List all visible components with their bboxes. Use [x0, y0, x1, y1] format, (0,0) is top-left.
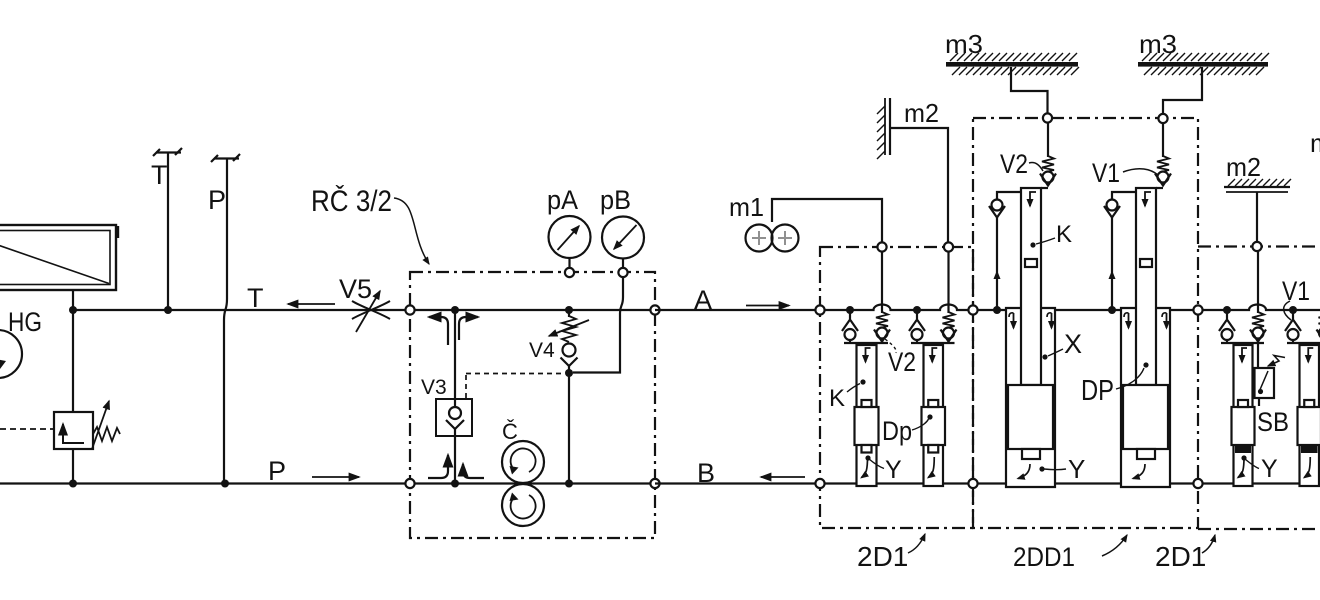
flow arrow hook up-left at P junction [428, 455, 448, 478]
wire B line through 2DD1 [973, 482, 1198, 484]
circulation pump C two circles [502, 441, 544, 526]
flow arrow into cylinder [866, 348, 871, 362]
check valve spring-loaded at x=948.5 [941, 251, 957, 343]
wire B line inside box to right [410, 482, 655, 484]
svg-text:m2: m2 [1226, 152, 1261, 182]
piston block [855, 407, 879, 445]
wire T line horizontal [73, 309, 410, 311]
barrel outer tube [1006, 308, 1055, 487]
drain arrow Y in barrel bottom [1133, 464, 1145, 479]
wire B line through right 2D1 [1198, 482, 1300, 484]
wire pB branch with crossing hop to V4 bottom node [573, 277, 623, 373]
flow arrow hook right at T junction [459, 317, 478, 340]
wire spring check to SB box [1257, 342, 1259, 369]
wire side check riser x=997 [996, 217, 998, 310]
svg-text:2D1: 2D1 [1155, 541, 1206, 572]
svg-text:pB: pB [600, 185, 631, 215]
node junction dot on A line x=1227 [1223, 306, 1231, 314]
piston lower tab [1022, 449, 1040, 459]
rod top edge extension to spring check [1156, 187, 1163, 189]
label DP 2DD1 with leader dot [1081, 362, 1149, 407]
check valve spring-loaded at x=1324.5 [1317, 312, 1320, 342]
label P on line with right flow arrow [268, 456, 359, 486]
port circle T left of box [405, 305, 414, 314]
enclosure box 2DD1 dash-dot [973, 118, 1198, 528]
svg-text:K: K [829, 385, 845, 412]
port circle at 1163,118.5 [1158, 114, 1167, 123]
node junction dot V4 bottom [565, 369, 573, 377]
svg-text:Y: Y [885, 456, 902, 484]
piston bottom band black [1301, 445, 1318, 453]
node junction dot V4 line on B [565, 480, 573, 488]
svg-text:m3: m3 [945, 29, 983, 59]
svg-text:Y: Y [1068, 454, 1085, 484]
piston top tab [928, 400, 938, 407]
svg-text:Dp: Dp [882, 416, 912, 446]
wire B line through block1 [820, 482, 973, 484]
wire V3 branch vertical [454, 310, 456, 484]
tank/cooler HG reservoir top-left [0, 225, 118, 290]
cylinder tube [857, 345, 877, 486]
wire m2 to block 2D1 second port [890, 128, 948, 243]
wire B line box to block 2D1 [655, 482, 820, 484]
wire m1 to block 2D1 port [772, 199, 882, 243]
label K block1 with leader dot [829, 379, 866, 412]
node junction dot on A line x=917 [913, 306, 921, 314]
piston lower tab [1137, 449, 1155, 459]
node junction dot T inside box [451, 306, 459, 314]
svg-text:pA: pA [547, 185, 578, 215]
pilot dashed line V3 to V4 [466, 374, 565, 399]
svg-text:A: A [694, 285, 712, 315]
port circle at 948.5,247 [944, 242, 953, 251]
gauge pair m1 [746, 225, 799, 252]
check valve spring-loaded at x=1258 [1250, 250, 1266, 342]
svg-text:V3: V3 [421, 376, 447, 399]
svg-text:SB: SB [1257, 407, 1289, 437]
svg-text:RČ 3/2: RČ 3/2 [311, 184, 392, 218]
label Y right block with leader dot [1241, 455, 1278, 483]
piston block [922, 407, 946, 445]
wire m3 second to 2DD1 right port [1163, 67, 1202, 115]
check valve side at x=1112 [1104, 192, 1136, 218]
svg-text:T: T [151, 160, 168, 190]
enclosure box RC 3/2 dash-dot [410, 272, 655, 538]
gauge pA [549, 216, 591, 272]
label K 2DD1 with leader dot [1030, 221, 1072, 248]
flow arrow hook left at T junction [429, 317, 448, 345]
label B with left flow arrow [697, 458, 805, 488]
node junction dot on A line x=1293 [1289, 306, 1297, 314]
svg-text:V4: V4 [529, 339, 555, 362]
cylinder tube [1300, 345, 1320, 486]
cylinder tube [1234, 345, 1253, 486]
pressure switch SB [1255, 368, 1275, 406]
label T on line with left flow arrow [247, 283, 335, 313]
label 2D1 right with leader arrow [1155, 535, 1215, 572]
port circle at 1257,246.5 [1252, 242, 1261, 251]
node junction dot P stub [221, 480, 229, 488]
relief valve V4 spring and ball [549, 310, 589, 373]
cylinder tube [924, 345, 944, 486]
piston top tab [862, 400, 872, 407]
manifold bracket to cylinder [911, 342, 955, 344]
svg-text:V1: V1 [1282, 276, 1310, 306]
rod stage tube [1021, 188, 1041, 385]
label RC 3/2 with leader arrow [311, 184, 429, 264]
svg-text:2D1: 2D1 [857, 541, 908, 572]
flow arrow into cylinder [1242, 348, 1247, 362]
svg-text:Č: Č [502, 419, 518, 444]
svg-text:m2: m2 [1310, 128, 1320, 158]
rod piston tab [1140, 259, 1152, 267]
svg-text:X: X [1064, 329, 1082, 359]
svg-text:Y: Y [1261, 455, 1278, 483]
svg-text:K: K [1056, 221, 1072, 248]
drain arrow Y in barrel bottom [1018, 464, 1030, 479]
support m3 hatched bar [1138, 53, 1269, 75]
wire A line inside and out to blocks [410, 309, 655, 311]
label 2DD1 with leader arrow [1013, 535, 1127, 572]
enclosure box 2D1 right dash-dot [1198, 247, 1320, 530]
flow arrow hook up-right at P junction [463, 464, 484, 478]
port circle at 973,310 [968, 305, 977, 314]
wire A line box to block 2D1 [655, 309, 820, 311]
check valve V3 in square [436, 399, 472, 436]
piston bottom band black [1235, 445, 1251, 453]
flow arrow into cylinder [932, 348, 937, 362]
label V2 block1 dashed leader [885, 339, 916, 377]
wire cooler to T line [72, 290, 74, 310]
enclosure box 2D1 first dash-dot [820, 247, 973, 528]
node junction dot V4 top on A line [565, 306, 573, 314]
flow arrow in rod [1030, 192, 1036, 206]
pump HG circle [0, 330, 22, 378]
rod stage tube [1136, 188, 1156, 385]
telescopic piston block [1123, 385, 1168, 449]
wire vertical pump branch to P line [72, 310, 74, 483]
label Y 2DD1 with leader dot [1039, 454, 1085, 484]
node junction dot P inside box [451, 480, 459, 488]
svg-text:V2: V2 [888, 347, 916, 377]
piston bottom tab [928, 445, 938, 453]
port circle at 882,247 [877, 242, 886, 251]
piston bottom tab [862, 445, 872, 453]
drain arrow Y in cylinder bottom [1238, 457, 1244, 478]
telescopic piston block [1008, 385, 1053, 449]
label Dp block1 with leader dot [882, 414, 933, 446]
check valve plain at x=917 [909, 310, 925, 343]
port circle at 820,310 [815, 305, 824, 314]
port circle at 1198,310 [1193, 305, 1202, 314]
svg-text:P: P [268, 456, 286, 486]
node junction dot left check on A [993, 306, 1001, 314]
port circle pB on box top [618, 268, 627, 277]
annulus flow arrow left [1009, 313, 1014, 328]
check valve side at x=997 [989, 192, 1021, 218]
label Y block1 with leader dot [865, 455, 902, 484]
node junction dot cooler/T [69, 306, 77, 314]
annulus flow arrow right [1047, 313, 1052, 328]
svg-text:m3: m3 [1139, 29, 1177, 59]
barrel outer tube [1121, 308, 1170, 487]
port circle pA on box top [565, 268, 574, 277]
node junction dot T stub [164, 306, 172, 314]
check valve spring-loaded at x=882 [874, 251, 890, 343]
port circle at 1047.5,118 [1043, 113, 1052, 122]
piston block [1298, 407, 1320, 445]
port circle A right of box [650, 305, 659, 314]
label 2D1 first with leader arrow [857, 534, 925, 572]
manifold bracket to cylinder [844, 342, 888, 344]
annulus flow arrow right [1162, 313, 1167, 328]
wire m2 second down to right 2D1 port [1256, 192, 1258, 242]
check valve spring-loaded V1 at x=1163 [1155, 122, 1171, 186]
check valve plain at x=1227 [1219, 310, 1235, 343]
label V1 right block with leader [1282, 276, 1310, 320]
gauge pB [602, 217, 644, 273]
flow arrow into cylinder [1308, 348, 1313, 362]
port T stub vertical with termination [153, 148, 182, 310]
wire A line through block1 with crossing hops [820, 305, 973, 310]
port circle at 1198,483.5 [1193, 479, 1202, 488]
rod top edge extension to spring check [1041, 187, 1048, 189]
piston top tab [1238, 400, 1248, 407]
port circle P left of box [405, 479, 414, 488]
svg-text:m2: m2 [904, 98, 939, 128]
label X 2DD1 with leader dot [1042, 329, 1082, 360]
rod piston tab [1025, 259, 1037, 267]
port circle at 973,483.5 [968, 479, 977, 488]
manifold bracket [1221, 342, 1264, 344]
support m2 second horizontal hatched [1224, 179, 1291, 192]
check valve spring-loaded V2 at x=1048 [1040, 122, 1056, 186]
svg-text:2DD1: 2DD1 [1013, 542, 1075, 572]
wire m3 first to 2DD1 left port [1011, 67, 1048, 114]
svg-text:DP: DP [1081, 375, 1114, 407]
svg-text:V1: V1 [1092, 158, 1120, 188]
port circle at 820,483.5 [815, 479, 824, 488]
drain arrow Y in cylinder bottom [928, 457, 934, 478]
svg-text:B: B [697, 458, 715, 488]
manifold bracket [1287, 342, 1320, 344]
actuation zigzag arrow to SB [1268, 356, 1285, 367]
node junction dot right check on A [1108, 306, 1116, 314]
svg-text:V2: V2 [1000, 149, 1028, 179]
check valve plain at x=850 [842, 310, 858, 343]
svg-text:V5: V5 [339, 274, 372, 304]
label A with right flow arrow [694, 285, 789, 315]
support m3 hatched bar [946, 53, 1079, 75]
label V2 2DD1 with leader [1000, 149, 1043, 179]
svg-text:T: T [247, 283, 264, 313]
piston top tab [1304, 400, 1314, 407]
wire A line through right 2D1 with hop [1198, 305, 1320, 310]
relief valve (pressure valve) left [0, 401, 120, 449]
drain arrow Y in cylinder bottom [862, 457, 868, 478]
node junction dot on A line x=850 [846, 306, 854, 314]
annulus flow arrow left [1124, 313, 1129, 328]
drain arrow Y in cylinder bottom [1304, 457, 1310, 478]
label V1 2DD1 with leader [1092, 158, 1158, 188]
wire V4 bottom to B line [568, 373, 570, 484]
wire A line through 2DD1 [973, 309, 1198, 311]
check valve plain at x=1293 [1285, 310, 1301, 343]
wire side check riser x=1112 [1111, 217, 1113, 310]
piston block [1232, 407, 1255, 445]
svg-text:m1: m1 [729, 192, 764, 222]
throttle valve V5 [352, 291, 390, 332]
svg-text:HG: HG [8, 307, 42, 337]
flow arrow in rod [1145, 192, 1151, 206]
port circle B right of box [650, 479, 659, 488]
support wall m2 first vertical hatched [877, 98, 890, 159]
svg-text:P: P [208, 185, 226, 215]
wire P line horizontal [0, 482, 410, 484]
node junction dot pump/P [69, 480, 77, 488]
port P stub vertical with termination and crossing hop [211, 154, 240, 484]
